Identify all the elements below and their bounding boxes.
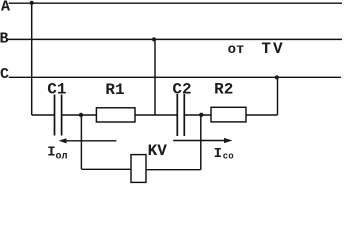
svg-text:TV: TV	[261, 40, 284, 58]
svg-text:C1: C1	[47, 80, 66, 98]
svg-text:от: от	[228, 42, 245, 58]
svg-text:R2: R2	[214, 80, 233, 98]
svg-text:ол: ол	[56, 152, 68, 163]
svg-text:A: A	[1, 0, 10, 16]
svg-text:I: I	[47, 145, 55, 161]
svg-text:B: B	[0, 31, 9, 48]
svg-text:R1: R1	[105, 81, 124, 99]
svg-text:со: со	[223, 152, 234, 162]
svg-text:C2: C2	[172, 80, 191, 98]
svg-text:C: C	[0, 66, 9, 83]
svg-text:KV: KV	[148, 142, 168, 160]
svg-text:I: I	[214, 146, 222, 162]
